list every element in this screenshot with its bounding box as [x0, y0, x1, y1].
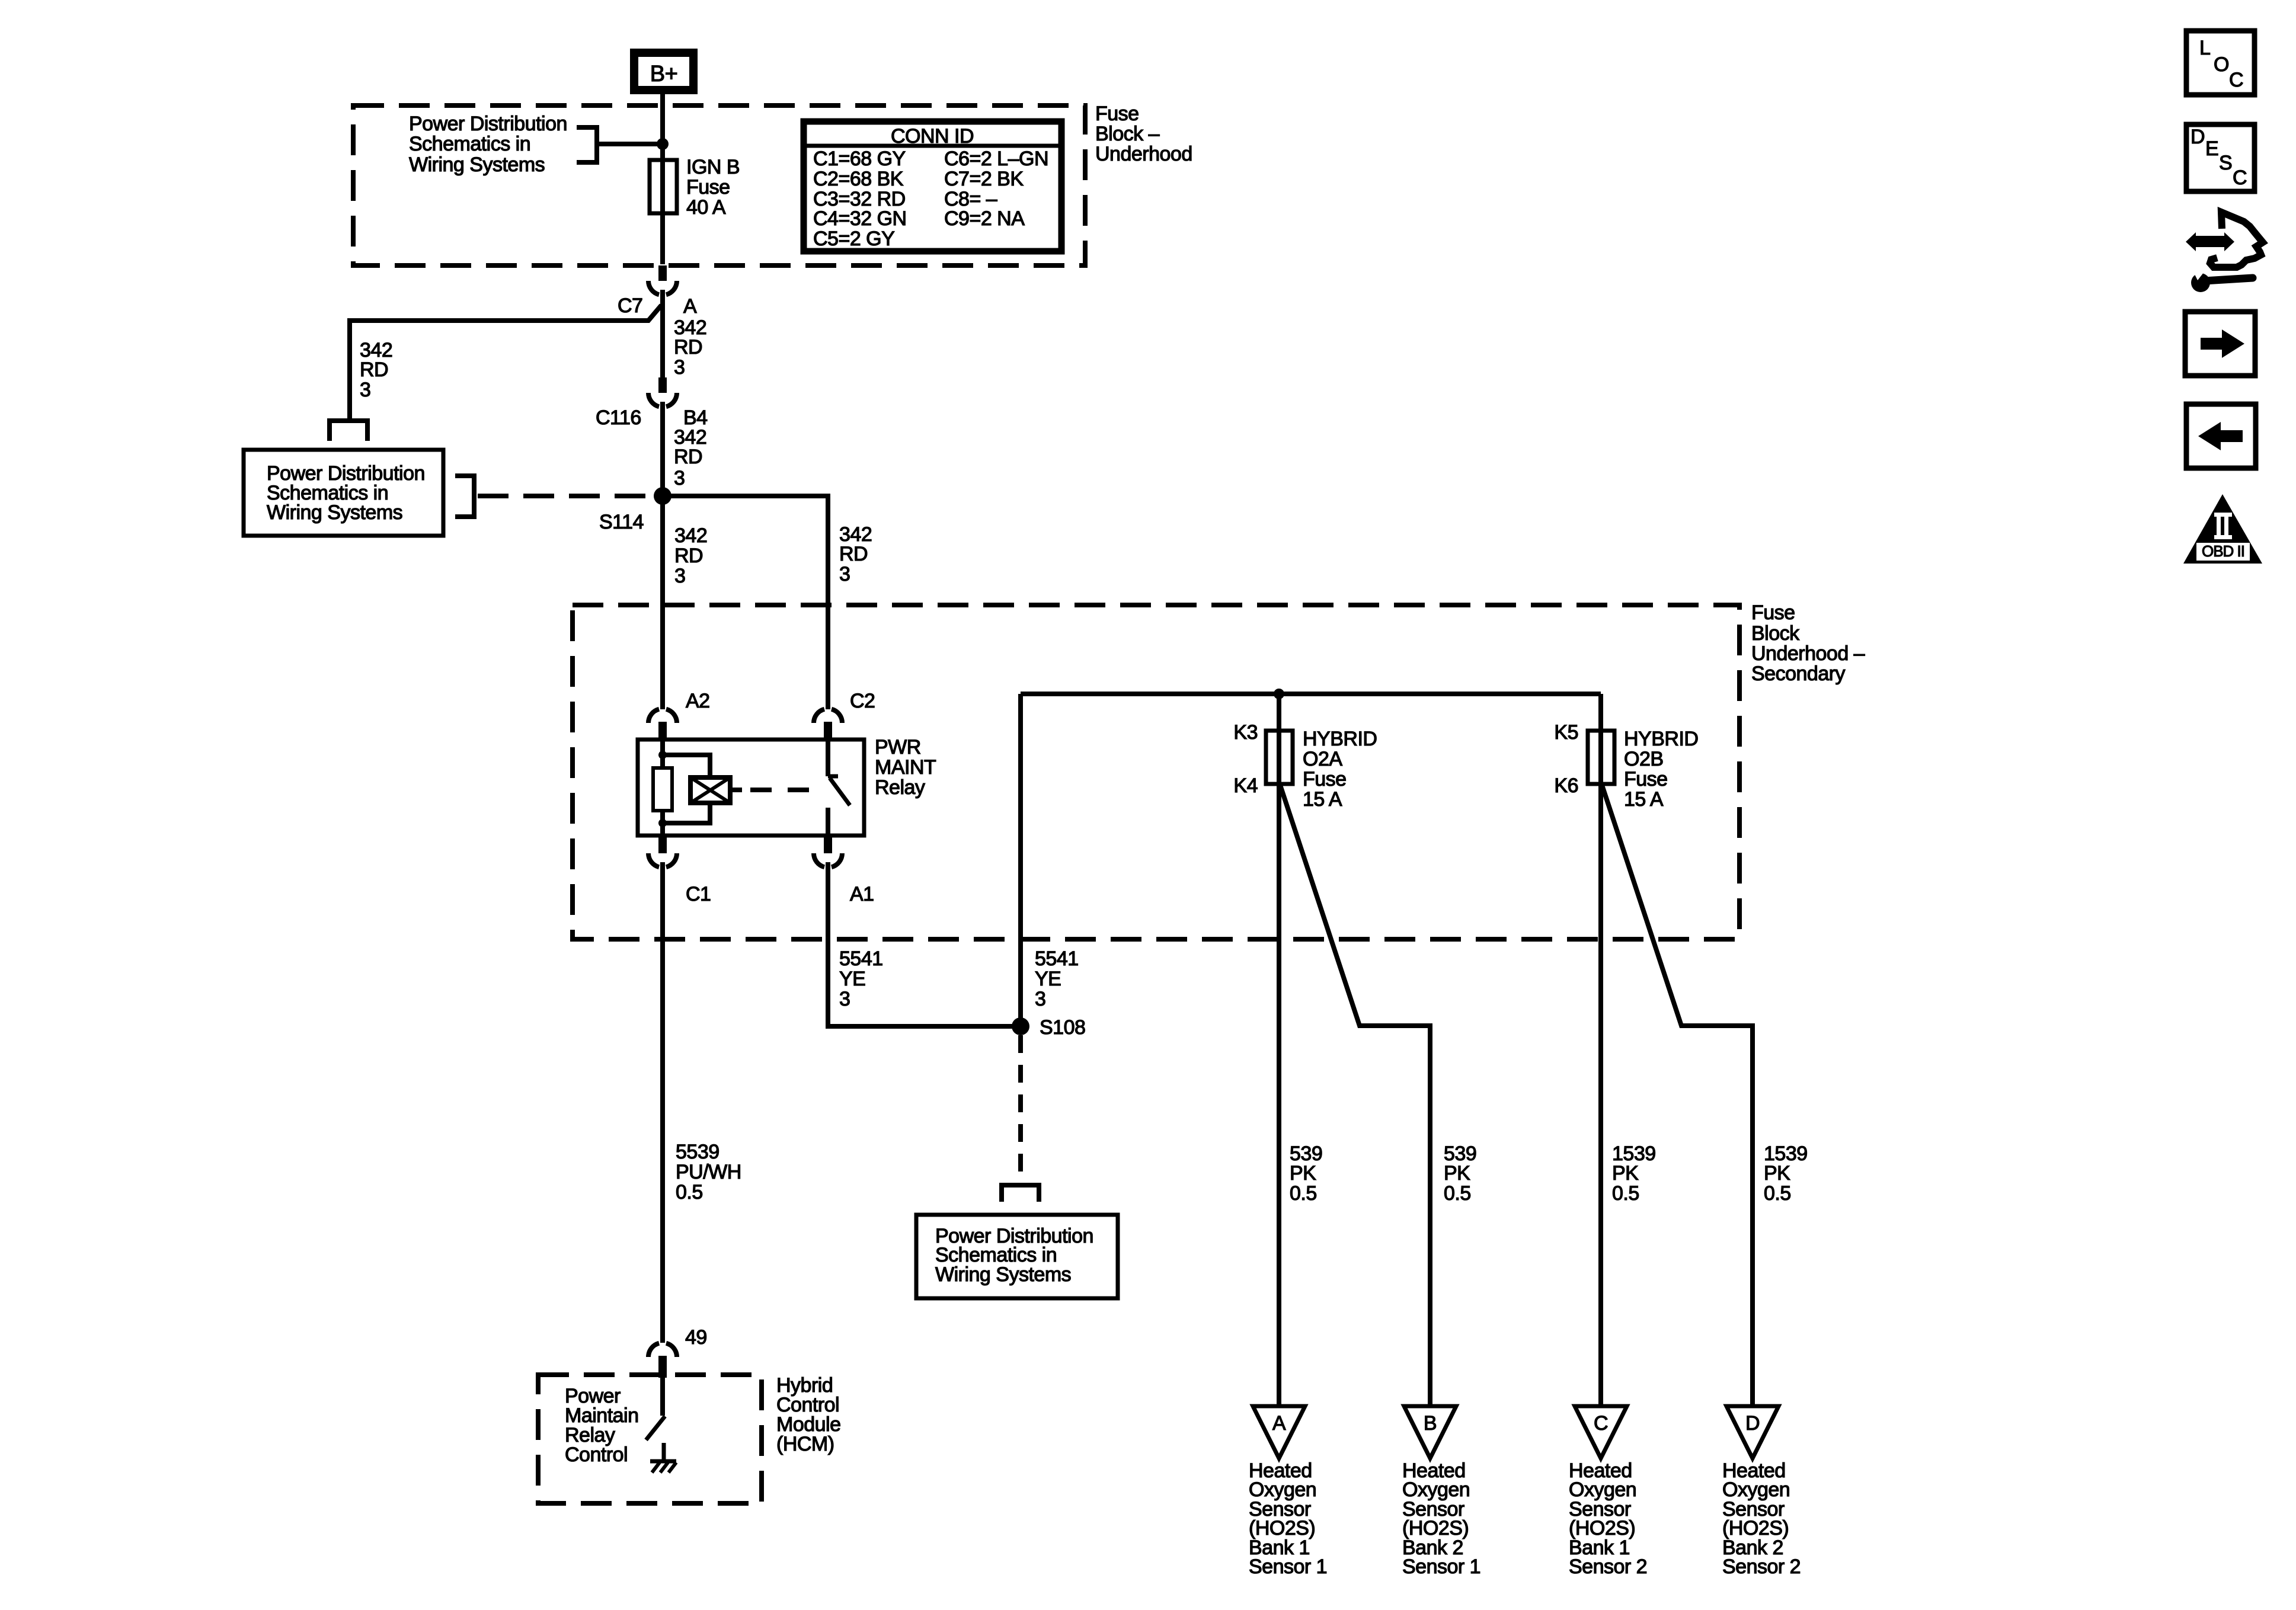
wire bus drop to S108: [1018, 694, 1023, 1026]
heated oxygen sensor triangle C: [1575, 1406, 1627, 1458]
svg-text:C4=32 GN: C4=32 GN: [813, 207, 907, 230]
svg-text:Sensor 1: Sensor 1: [1402, 1555, 1480, 1578]
svg-text:Wiring Systems: Wiring Systems: [935, 1263, 1071, 1286]
svg-text:A: A: [683, 295, 697, 318]
svg-text:3: 3: [839, 563, 850, 585]
callout bracket above bottom note box: [1002, 1185, 1039, 1202]
svg-text:PU/WH: PU/WH: [676, 1161, 741, 1183]
svg-text:5541: 5541: [839, 948, 883, 970]
svg-text:RD: RD: [360, 359, 388, 381]
svg-text:C6=2 L–GN: C6=2 L–GN: [944, 148, 1048, 170]
wire 1539 PK 0.5 to sensor C: [1598, 694, 1603, 1406]
wire label 539 PK 0.5 (B): [1444, 1142, 1476, 1205]
wire 342 RD 3 from C7 to C116: [660, 290, 665, 377]
connector C2: [814, 690, 875, 740]
svg-text:RD: RD: [839, 543, 868, 565]
svg-text:YE: YE: [839, 968, 865, 990]
heated oxygen sensor triangle D: [1726, 1406, 1779, 1458]
svg-text:B+: B+: [650, 62, 678, 87]
bus junction dot at K3: [1274, 689, 1284, 699]
svg-text:S108: S108: [1040, 1016, 1085, 1039]
svg-text:PWR: PWR: [875, 736, 921, 758]
svg-text:Underhood: Underhood: [1095, 143, 1192, 165]
wire label 342 RD 3 (right branch): [839, 523, 872, 585]
svg-text:HYBRID: HYBRID: [1303, 728, 1377, 750]
svg-text:3: 3: [674, 565, 685, 587]
svg-text:O2A: O2A: [1303, 748, 1342, 770]
svg-text:A1: A1: [850, 883, 874, 905]
svg-text:0.5: 0.5: [1612, 1182, 1639, 1205]
svg-text:15 A: 15 A: [1624, 788, 1664, 811]
svg-text:Wiring Systems: Wiring Systems: [267, 501, 402, 524]
wire S114 right then down to C2: [663, 496, 828, 709]
wire C1 down to HCM connector 49: [660, 862, 665, 1343]
connector C7 terminal A: [618, 265, 697, 318]
connector A1: [814, 836, 874, 905]
svg-text:15 A: 15 A: [1303, 788, 1342, 811]
svg-text:C: C: [1594, 1412, 1608, 1435]
wire B+ down to IGN B fuse: [660, 94, 665, 160]
splice S114: [599, 487, 671, 533]
relay switch contact: [828, 740, 850, 836]
wire 539 PK 0.5 to sensor B: [1280, 785, 1430, 1406]
svg-text:3: 3: [1035, 988, 1045, 1010]
note box: Power Distribution Schematics in Wiring Systems (left): [244, 450, 443, 536]
label Fuse Block - Underhood: [1095, 103, 1192, 165]
svg-text:D: D: [2191, 126, 2205, 148]
callout bracket above left note box: [330, 421, 367, 441]
relay internal junction dots: [658, 751, 667, 759]
svg-text:C2=68 BK: C2=68 BK: [813, 168, 904, 190]
svg-text:342: 342: [674, 524, 707, 547]
svg-text:Sensor 1: Sensor 1: [1249, 1555, 1327, 1578]
svg-text:D: D: [1745, 1412, 1760, 1435]
wire S114 down to A2: [660, 496, 665, 709]
svg-text:IGN B: IGN B: [686, 156, 740, 178]
fuse block underhood dashed box: [353, 105, 1085, 265]
svg-text:K4: K4: [1233, 774, 1258, 797]
svg-text:Fuse: Fuse: [1624, 768, 1668, 790]
svg-text:C1=68 GY: C1=68 GY: [813, 148, 906, 170]
svg-text:Control: Control: [565, 1443, 628, 1466]
svg-text:Block –: Block –: [1095, 123, 1160, 145]
fuse block underhood secondary dashed box: [573, 605, 1739, 939]
svg-text:3: 3: [674, 356, 685, 379]
svg-text:C: C: [2233, 167, 2247, 189]
splice S108: [1012, 1016, 1085, 1039]
note: Power Distribution Schematics in Wiring Systems (top left): [409, 113, 567, 176]
wire label 342 RD 3 (below S114): [674, 524, 707, 587]
note box: Power Distribution Schematics in Wiring Systems (bottom): [916, 1215, 1118, 1298]
svg-text:PK: PK: [1764, 1162, 1790, 1185]
svg-text:Underhood –: Underhood –: [1751, 642, 1865, 665]
wire C116 to S114: [660, 402, 665, 496]
relay PWR MAINT box: [638, 740, 864, 836]
wire 1539 PK 0.5 to sensor D: [1602, 785, 1753, 1406]
HCM internal switch: [646, 1378, 665, 1440]
relay coil branch wire A2 to C1: [660, 740, 665, 836]
svg-text:S: S: [2219, 152, 2232, 174]
relay coil (box with X): [690, 777, 742, 803]
icon DESC box: [2186, 124, 2255, 191]
label Hybrid Control Module (HCM): [776, 1374, 841, 1455]
svg-text:5539: 5539: [676, 1141, 720, 1163]
icon forward arrow box: [2185, 312, 2255, 376]
svg-text:Relay: Relay: [875, 776, 925, 799]
icon back arrow box: [2186, 404, 2256, 468]
wire bus to fuse HYBRID O2A: [1277, 694, 1281, 1406]
relay label PWR MAINT Relay: [875, 736, 936, 799]
junction dot to power distribution callout: [657, 138, 669, 150]
svg-text:Sensor 2: Sensor 2: [1722, 1555, 1801, 1578]
svg-text:0.5: 0.5: [1290, 1182, 1317, 1205]
svg-text:Fuse: Fuse: [1303, 768, 1347, 790]
fuse feed bus wire: [1021, 692, 1601, 696]
svg-text:MAINT: MAINT: [875, 756, 936, 779]
svg-text:RD: RD: [674, 545, 703, 567]
svg-text:Block: Block: [1751, 622, 1800, 645]
CONN ID table: [801, 121, 1064, 251]
label HO2S bank 2 sensor 1: [1402, 1459, 1480, 1578]
bracket right of left note box: [455, 476, 474, 517]
svg-text:C1: C1: [686, 883, 711, 905]
svg-text:S114: S114: [599, 511, 644, 533]
svg-text:C: C: [2229, 69, 2243, 91]
svg-text:0.5: 0.5: [1444, 1182, 1471, 1205]
connector C116 terminal B4: [596, 377, 708, 429]
svg-text:PK: PK: [1290, 1162, 1316, 1185]
label HO2S bank 1 sensor 1: [1249, 1459, 1327, 1578]
svg-text:K3: K3: [1233, 721, 1258, 744]
heated oxygen sensor triangle A: [1253, 1406, 1305, 1458]
svg-text:Secondary: Secondary: [1751, 662, 1846, 685]
svg-text:C7=2 BK: C7=2 BK: [944, 168, 1024, 190]
relay actuator dashed link: [750, 788, 821, 792]
svg-text:3: 3: [674, 467, 685, 489]
wire label 342 RD 3 (B4): [674, 426, 706, 489]
svg-text:Sensor 2: Sensor 2: [1569, 1555, 1647, 1578]
heated oxygen sensor triangle B: [1404, 1406, 1456, 1458]
svg-text:C2: C2: [850, 690, 875, 712]
svg-text:A: A: [1272, 1412, 1286, 1435]
wire label 342 RD 3 (left branch): [360, 339, 392, 401]
branch wire to left callout: [350, 305, 661, 421]
wire label 5541 YE 3 (bus drop): [1035, 948, 1079, 1010]
svg-text:K5: K5: [1554, 721, 1578, 744]
svg-text:CONN ID: CONN ID: [891, 125, 974, 148]
svg-text:PK: PK: [1612, 1162, 1639, 1185]
callout bracket (top left): [577, 127, 597, 162]
dashed wire from bracket to splice S114: [478, 494, 654, 498]
svg-text:Power Distribution: Power Distribution: [409, 113, 567, 135]
svg-text:0.5: 0.5: [1764, 1182, 1791, 1205]
svg-text:3: 3: [839, 988, 850, 1010]
svg-text:C9=2 NA: C9=2 NA: [944, 207, 1025, 230]
dashed wire S108 down to callout bracket: [1018, 1035, 1023, 1185]
svg-text:K6: K6: [1554, 774, 1578, 797]
svg-text:Fuse: Fuse: [686, 176, 730, 199]
svg-text:C5=2 GY: C5=2 GY: [813, 228, 894, 250]
svg-text:3: 3: [360, 379, 370, 401]
relay resistor: [653, 768, 672, 811]
svg-text:E: E: [2205, 137, 2218, 160]
connector A2: [648, 690, 710, 740]
svg-text:Fuse: Fuse: [1095, 103, 1139, 125]
svg-text:RD: RD: [674, 446, 702, 468]
svg-text:Fuse: Fuse: [1751, 601, 1795, 624]
label Fuse Block Underhood - Secondary: [1751, 601, 1865, 685]
wire junction to callout bracket: [597, 142, 663, 146]
fuse IGN B 40 A: [650, 156, 740, 264]
label HO2S bank 1 sensor 2: [1569, 1459, 1647, 1578]
wire A1 down and right to S108: [828, 862, 1021, 1026]
svg-text:B: B: [1424, 1412, 1437, 1435]
fuse HYBRID O2A 15 A (K3/K4): [1233, 721, 1377, 811]
svg-text:49: 49: [685, 1326, 707, 1349]
icon LOC box: [2186, 31, 2255, 95]
svg-text:O2B: O2B: [1624, 748, 1664, 770]
wire label 342 RD 3 (terminal A): [674, 316, 706, 379]
svg-text:OBD II: OBD II: [2202, 542, 2244, 560]
icon connector end view (double arrow, outline arrow, wrench): [2186, 212, 2263, 292]
svg-text:(HCM): (HCM): [776, 1433, 834, 1455]
svg-text:Schematics in: Schematics in: [409, 133, 530, 155]
connector C1: [648, 836, 711, 905]
svg-text:0.5: 0.5: [676, 1181, 703, 1204]
label Power Maintain Relay Control: [565, 1385, 639, 1466]
wire label 539 PK 0.5 (A): [1290, 1142, 1322, 1205]
svg-text:C116: C116: [596, 406, 641, 429]
svg-text:40 A: 40 A: [686, 196, 726, 219]
wire label 1539 PK 0.5 (C): [1612, 1142, 1656, 1205]
wire label 1539 PK 0.5 (D): [1764, 1142, 1808, 1205]
svg-text:C7: C7: [618, 295, 642, 317]
icon OBD II triangle: [2183, 494, 2262, 564]
wire label 5539 PU/WH 0.5: [676, 1141, 741, 1204]
wire label 5541 YE 3 (A1): [839, 948, 883, 1010]
svg-text:L: L: [2199, 37, 2210, 59]
hybrid control module dashed box: [538, 1375, 762, 1503]
svg-text:5541: 5541: [1035, 948, 1079, 970]
power source B+: [634, 53, 693, 90]
svg-text:RD: RD: [674, 336, 702, 359]
svg-text:A2: A2: [686, 690, 710, 712]
ground inside HCM: [650, 1443, 676, 1473]
svg-text:O: O: [2214, 53, 2229, 76]
fuse HYBRID O2B 15 A (K5/K6): [1554, 721, 1698, 811]
svg-text:Wiring Systems: Wiring Systems: [409, 153, 545, 176]
svg-text:YE: YE: [1035, 968, 1061, 990]
connector 49 at HCM: [648, 1326, 707, 1378]
svg-text:PK: PK: [1444, 1162, 1470, 1185]
relay coil parallel loop: [663, 755, 710, 823]
svg-text:HYBRID: HYBRID: [1624, 728, 1698, 750]
label HO2S bank 2 sensor 2: [1722, 1459, 1801, 1578]
